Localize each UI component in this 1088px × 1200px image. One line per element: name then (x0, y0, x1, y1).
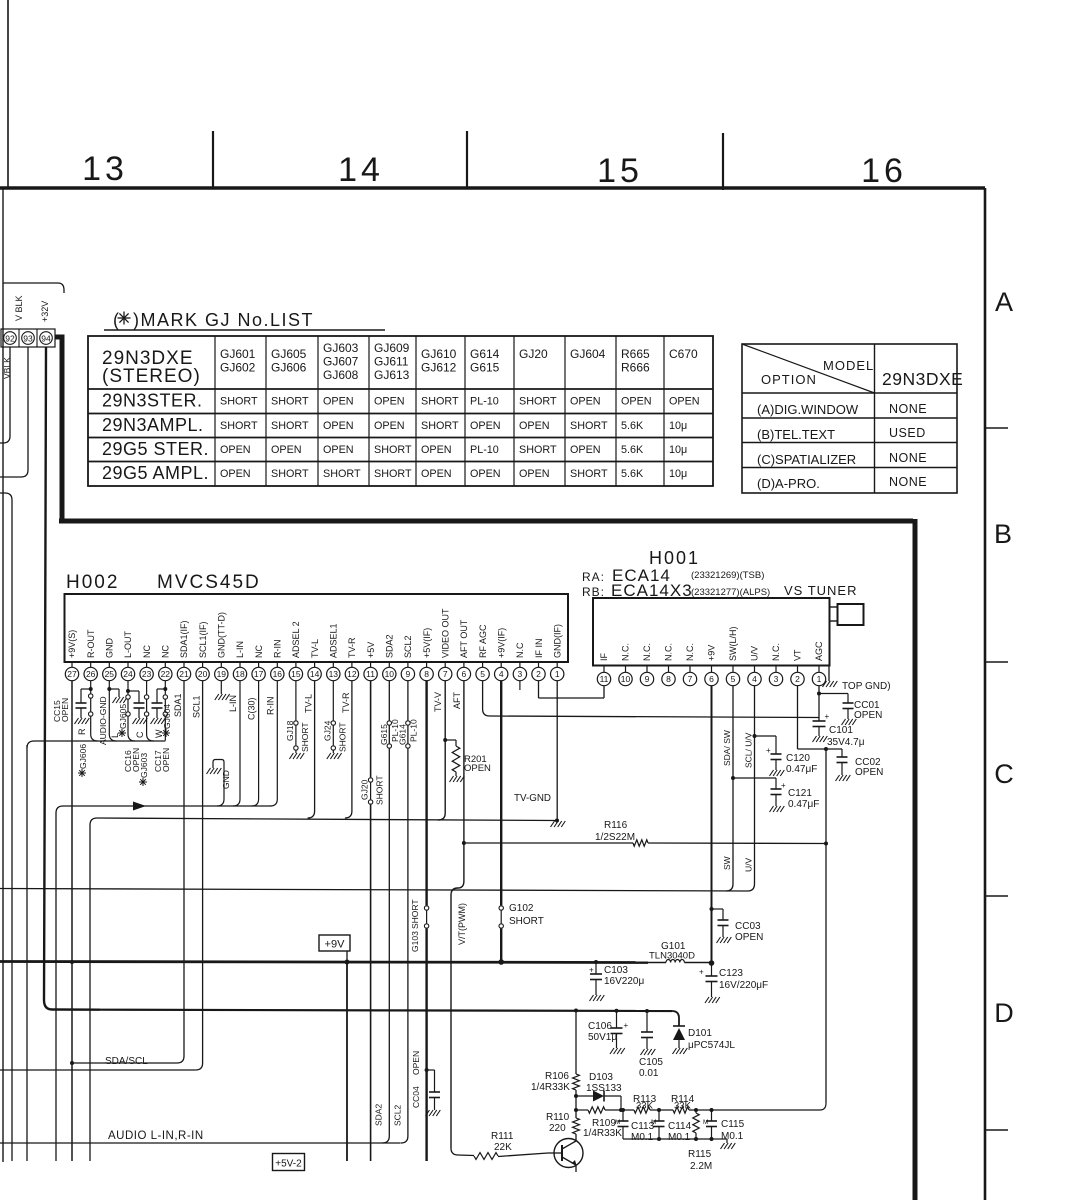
wire pin11 +5V with jumper GJ20 (368, 681, 372, 1161)
svg-text:R: R (77, 728, 87, 735)
labels R109 1/4R33K (583, 1118, 622, 1139)
svg-text:D101: D101 (688, 1028, 712, 1039)
labels G615 PL-10 (379, 719, 400, 745)
tuner connector stub (830, 604, 864, 625)
svg-text:N.C.: N.C. (685, 643, 695, 661)
capacitor C120 (755, 736, 785, 776)
svg-text:OPEN: OPEN (374, 396, 405, 408)
svg-text:R115: R115 (688, 1149, 712, 1160)
SDA/SCL lines (0, 1063, 196, 1070)
table title (*)MARK GJ No.LIST (104, 310, 385, 330)
wire tuner AGC pin1 + C101 (817, 686, 821, 721)
svg-text:220: 220 (549, 1123, 566, 1134)
svg-text:SHORT: SHORT (374, 468, 412, 480)
GND bracket near pin19 (207, 760, 225, 807)
svg-text:GJ24: GJ24 (322, 720, 332, 741)
wire from pin 93 down, curves left (0, 347, 28, 477)
svg-text:PL-10: PL-10 (470, 444, 499, 456)
svg-text:AUDIO L-IN,R-IN: AUDIO L-IN,R-IN (108, 1130, 204, 1142)
wire entering from left, curves down (x11 rail) (0, 493, 12, 1161)
svg-text:OPEN: OPEN (735, 932, 763, 943)
labels SDA/SW SCL/UV (722, 730, 754, 768)
svg-text:OPEN: OPEN (323, 444, 354, 456)
capacitor CC16 on pin24 (126, 689, 147, 724)
svg-text:M: M (615, 1119, 620, 1126)
wire pin6 AFT with jog to V/T(PWM) (451, 681, 466, 1148)
svg-text:NC: NC (161, 645, 171, 658)
svg-text:R111: R111 (491, 1131, 514, 1142)
svg-text:M: M (651, 1119, 656, 1126)
labels CC16 OPEN *GJ603 (123, 748, 149, 786)
label SDA1 (173, 693, 183, 717)
svg-text:29G5 STER.: 29G5 STER. (102, 439, 209, 459)
svg-text:C123: C123 (719, 968, 743, 979)
svg-text:IF: IF (599, 652, 609, 661)
capacitor C106 (610, 1011, 629, 1054)
capacitor CC01 OPEN (819, 694, 856, 726)
diode D103 1SS133 (576, 1091, 623, 1113)
svg-text:H001: H001 (649, 548, 700, 568)
labels C121 0.47uF (788, 788, 819, 810)
svg-text:1/4R33K: 1/4R33K (531, 1082, 570, 1093)
labels G102 SHORT (509, 903, 544, 927)
svg-text:15: 15 (291, 669, 301, 679)
svg-text:C115: C115 (721, 1119, 745, 1130)
svg-text:R-IN: R-IN (273, 640, 283, 659)
VT divider line with R109 R113 R114 (576, 1103, 826, 1113)
capacitor C113 (615, 1108, 629, 1139)
capacitor C103 electrolytic (589, 960, 604, 1001)
svg-text:16: 16 (861, 152, 907, 190)
svg-text:OPEN: OPEN (519, 420, 550, 432)
svg-text:GJ605: GJ605 (118, 704, 128, 729)
svg-text:GJ606: GJ606 (271, 361, 307, 375)
wire tuner SW pin5 down (726, 686, 733, 891)
jumper GJ604 on pin 22 (163, 681, 167, 741)
svg-text:TOP GND): TOP GND) (842, 681, 891, 692)
svg-text:17: 17 (254, 669, 264, 679)
jumper GJ605 on pin 24 (126, 681, 135, 741)
svg-text:N.C.: N.C. (642, 643, 652, 661)
resistor R115 (693, 1110, 699, 1139)
svg-text:C670: C670 (669, 347, 698, 361)
wire x27 lower rail from audio bus corner (26, 745, 28, 1161)
capacitor C105 (641, 1011, 656, 1055)
wire pin17 to gnd bus (252, 681, 259, 806)
svg-text:μPC574JL: μPC574JL (688, 1040, 735, 1051)
labels R114 33K (671, 1094, 695, 1112)
svg-text:V BLK: V BLK (14, 295, 24, 321)
capacitor C121 (731, 776, 786, 812)
svg-text:MVCS45D: MVCS45D (157, 572, 261, 593)
svg-text:AGC: AGC (814, 641, 824, 661)
wire pin9 SCL2 with jumper G614 PL-10 (401, 681, 410, 1143)
labels R201 OPEN (464, 754, 491, 774)
svg-text:21: 21 (179, 669, 189, 679)
label TV-GND (514, 793, 551, 804)
+5V-2 boxed label (273, 1154, 305, 1171)
svg-text:AFT: AFT (452, 691, 462, 709)
svg-text:5: 5 (731, 674, 736, 684)
svg-text:+9V(S): +9V(S) (67, 630, 77, 658)
label TV-R on pin12 wire (341, 692, 351, 713)
svg-text:GJ606: GJ606 (78, 744, 88, 769)
svg-text:RB:: RB: (582, 585, 605, 599)
svg-text:GJ608: GJ608 (323, 368, 359, 382)
svg-text:G614: G614 (470, 347, 500, 361)
svg-text:0.47μF: 0.47μF (788, 799, 819, 810)
capacitor C115 (703, 1110, 717, 1139)
svg-text:M0.1: M0.1 (721, 1131, 744, 1142)
svg-text:50V1μ: 50V1μ (588, 1032, 617, 1043)
svg-text:29N3AMPL.: 29N3AMPL. (102, 415, 204, 435)
svg-text:N.C.: N.C. (771, 643, 781, 661)
svg-text:SW(L/H): SW(L/H) (728, 627, 738, 662)
H002 pin circles 27..1 (65, 662, 564, 681)
wire pin7 TV-V (438, 681, 447, 820)
svg-text:OPEN: OPEN (464, 763, 491, 774)
svg-text:SCL2: SCL2 (403, 635, 413, 658)
wire pin18 to gnd bus (233, 681, 240, 806)
IC H002 MVCS45D block (65, 572, 569, 662)
labels SW UV lower (722, 856, 754, 872)
svg-text:94: 94 (41, 333, 51, 343)
svg-text:GJ604: GJ604 (570, 347, 606, 361)
svg-text:33K: 33K (674, 1101, 692, 1112)
svg-text:+: + (766, 746, 771, 755)
svg-text:OPEN: OPEN (421, 444, 452, 456)
pin3 NC stub (519, 681, 521, 690)
pin19 ground stub (215, 681, 230, 700)
svg-text:GJ601: GJ601 (220, 347, 256, 361)
svg-text:3: 3 (518, 669, 523, 679)
svg-text:N.C: N.C (515, 642, 525, 658)
svg-text:20: 20 (198, 669, 208, 679)
svg-text:NC: NC (254, 645, 264, 658)
svg-text:TV-L: TV-L (310, 639, 320, 658)
labels R111 22K (491, 1131, 514, 1153)
+9V rail thick (0, 962, 648, 963)
svg-text:+5V-2: +5V-2 (275, 1159, 302, 1170)
labels C103 16V220u (604, 965, 644, 987)
svg-text:C(30): C(30) (247, 697, 257, 720)
svg-text:TV-GND: TV-GND (514, 793, 551, 804)
svg-text:SHORT: SHORT (323, 468, 361, 480)
svg-text:OPEN: OPEN (519, 468, 550, 480)
resistor R111 22K (451, 1148, 548, 1159)
svg-text:10: 10 (385, 669, 395, 679)
svg-text:OPEN: OPEN (323, 420, 354, 432)
svg-text:VIDEO OUT: VIDEO OUT (440, 608, 450, 658)
label SDA/SCL (105, 1056, 148, 1067)
svg-text:SHORT: SHORT (337, 722, 347, 752)
connector pins 92 93 94 (1, 329, 55, 347)
svg-text:OPEN: OPEN (470, 468, 501, 480)
svg-text:29G5 AMPL.: 29G5 AMPL. (102, 463, 209, 483)
labels GJ20 SHORT (360, 775, 385, 805)
svg-text:)MARK GJ No.LIST: )MARK GJ No.LIST (133, 310, 314, 330)
wire tuner +9V pin6 down (709, 686, 715, 966)
svg-text:OPEN: OPEN (854, 710, 882, 721)
svg-text:C121: C121 (788, 788, 812, 799)
svg-text:U/V: U/V (744, 858, 754, 873)
svg-text:26: 26 (86, 669, 96, 679)
svg-text:1/2S22M: 1/2S22M (595, 832, 635, 843)
svg-text:SHORT: SHORT (220, 396, 258, 408)
svg-text:SHORT: SHORT (220, 420, 258, 432)
labels C123 16V/220uF (719, 968, 768, 991)
svg-text:USED: USED (889, 426, 926, 440)
svg-text:MODEL: MODEL (823, 358, 874, 373)
labels R106 1/4R33K (531, 1071, 570, 1093)
svg-text:GJ603: GJ603 (139, 753, 149, 778)
svg-text:L-OUT: L-OUT (123, 630, 133, 658)
svg-text:GJ607: GJ607 (323, 355, 359, 369)
svg-text:SHORT: SHORT (570, 468, 608, 480)
svg-text:1: 1 (555, 669, 560, 679)
svg-text:OPEN: OPEN (323, 396, 354, 408)
svg-text:5.6K: 5.6K (621, 444, 644, 456)
svg-text:29N3STER.: 29N3STER. (102, 391, 203, 411)
svg-text:R110: R110 (546, 1112, 570, 1123)
wire from pin 92 down, curves left (0, 347, 10, 443)
svg-text:SDA1(IF): SDA1(IF) (179, 620, 189, 658)
audio bus wire (27, 741, 165, 748)
svg-text:PL-10: PL-10 (408, 719, 418, 742)
labels C101 35V4.7u (827, 725, 865, 748)
svg-text:SCL2: SCL2 (393, 1104, 403, 1126)
wire pin16 to gnd bus (270, 681, 277, 806)
IC H001 tuner block (582, 548, 858, 666)
wire SCL1 pin20 (196, 681, 203, 1070)
svg-text:G615: G615 (379, 724, 389, 745)
svg-text:AFT OUT: AFT OUT (459, 619, 469, 658)
svg-text:SDA2: SDA2 (385, 634, 395, 658)
svg-text:TLN3040D: TLN3040D (649, 951, 695, 962)
svg-text:GJ611: GJ611 (374, 355, 409, 369)
svg-text:SHORT: SHORT (421, 396, 459, 408)
label AUDIO L-IN,R-IN (108, 1130, 204, 1142)
svg-text:+9V: +9V (325, 939, 346, 951)
svg-text:SCL1(IF): SCL1(IF) (198, 621, 208, 658)
svg-text:(A)DIG.WINDOW: (A)DIG.WINDOW (757, 402, 859, 417)
svg-text:11: 11 (366, 669, 375, 679)
grid column number 13 (82, 150, 128, 188)
svg-text:L: L (110, 733, 120, 738)
svg-text:TV-V: TV-V (433, 692, 443, 712)
svg-text:92: 92 (5, 333, 15, 343)
svg-text:11: 11 (600, 674, 609, 684)
GJ jumper option table (88, 336, 713, 486)
svg-text:24: 24 (123, 669, 133, 679)
svg-text:NC: NC (142, 645, 152, 658)
svg-text:GND: GND (221, 770, 231, 789)
labels R113 33K (633, 1094, 657, 1112)
svg-text:+: + (699, 968, 704, 977)
labels C115 M0.1 (721, 1119, 745, 1142)
svg-text:GJ612: GJ612 (421, 361, 457, 375)
svg-text:SHORT: SHORT (300, 722, 310, 752)
svg-text:GND(IF): GND(IF) (552, 624, 562, 658)
svg-text:D103: D103 (589, 1072, 613, 1083)
svg-text:SHORT: SHORT (570, 420, 608, 432)
svg-text:L-IN: L-IN (235, 641, 245, 658)
svg-text:ECA14X3: ECA14X3 (611, 581, 693, 600)
svg-text:GJ20: GJ20 (360, 779, 370, 800)
svg-text:(STEREO): (STEREO) (102, 366, 201, 387)
svg-text:SCL1: SCL1 (192, 695, 202, 718)
svg-text:OPEN: OPEN (220, 444, 251, 456)
svg-text:G102: G102 (509, 903, 534, 914)
grid row letter D (994, 998, 1014, 1028)
svg-text:(23321277)(ALPS): (23321277)(ALPS) (691, 587, 770, 598)
svg-text:RA:: RA: (582, 570, 605, 584)
tuner TOP GND stub and label (823, 666, 891, 693)
svg-text:(: ( (113, 310, 119, 330)
svg-text:5.6K: 5.6K (621, 468, 644, 480)
svg-text:23: 23 (142, 669, 152, 679)
wire tuner U/V pin4 down (748, 686, 757, 891)
svg-text:GJ603: GJ603 (323, 341, 359, 355)
svg-text:GJ20: GJ20 (519, 347, 548, 361)
resistor R110 (573, 1110, 580, 1141)
labels CC02 OPEN (855, 757, 883, 778)
svg-text:G614: G614 (397, 724, 407, 745)
label TV-L on pin14 wire (304, 694, 314, 713)
diode D101 varicap (672, 1011, 687, 1054)
svg-text:OPEN: OPEN (161, 748, 171, 772)
svg-text:C114: C114 (668, 1121, 692, 1132)
svg-text:C103: C103 (604, 965, 628, 976)
svg-text:SDA2: SDA2 (374, 1104, 384, 1126)
svg-text:A: A (995, 287, 1013, 317)
svg-text:NONE: NONE (889, 451, 927, 465)
svg-text:G615: G615 (470, 361, 500, 375)
svg-text:OPEN: OPEN (570, 444, 601, 456)
capacitor CC17 on pin22 (151, 687, 168, 724)
svg-text:6: 6 (709, 674, 714, 684)
svg-text:R666: R666 (621, 361, 650, 375)
svg-text:+: + (624, 1021, 629, 1030)
svg-text:12: 12 (347, 669, 357, 679)
svg-text:7: 7 (443, 669, 448, 679)
svg-text:OPEN: OPEN (570, 396, 601, 408)
svg-text:13: 13 (82, 150, 128, 188)
svg-text:TV-R: TV-R (347, 637, 357, 658)
heavy schematic border (55, 337, 915, 1200)
audio in line (0, 1142, 401, 1144)
svg-text:33K: 33K (636, 1101, 654, 1112)
labels R115 2.2M (688, 1149, 712, 1172)
svg-text:(23321269)(TSB): (23321269)(TSB) (691, 570, 764, 581)
grid row letter B (994, 519, 1012, 549)
svg-text:8: 8 (666, 674, 671, 684)
grid column number 15 (597, 152, 643, 190)
svg-text:NONE: NONE (889, 402, 927, 416)
svg-text:22K: 22K (494, 1142, 512, 1153)
wire pin1 GND(IF) to tv-gnd (556, 681, 558, 821)
wire pin10 SDA2 with jumper G615 PL-10 (382, 681, 391, 1143)
svg-text:U/V: U/V (750, 646, 760, 661)
capacitor C101 electrolytic (813, 712, 830, 742)
wire SDA1 pin21 (177, 681, 184, 1063)
svg-text:R-IN: R-IN (265, 697, 275, 716)
svg-text:7: 7 (688, 674, 693, 684)
svg-text:16V/220μF: 16V/220μF (719, 980, 768, 991)
svg-text:0.47μF: 0.47μF (786, 764, 817, 775)
label AFT (452, 691, 462, 709)
svg-text:SDA/ SW: SDA/ SW (722, 730, 732, 766)
svg-text:35V4.7μ: 35V4.7μ (827, 737, 865, 748)
svg-text:SHORT: SHORT (375, 775, 385, 805)
svg-text:OPEN: OPEN (621, 396, 652, 408)
labels C113 M0.1 (631, 1121, 655, 1143)
svg-text:OPEN: OPEN (421, 468, 452, 480)
svg-text:13: 13 (329, 669, 339, 679)
svg-text:N.C.: N.C. (664, 643, 674, 661)
transistor Q101 (548, 1139, 583, 1173)
svg-text:10μ: 10μ (669, 420, 687, 432)
svg-text:SDA1: SDA1 (173, 693, 183, 717)
capacitor C123 electrolytic (699, 963, 720, 1003)
labels GJ24 SHORT (322, 720, 347, 752)
svg-text:6: 6 (462, 669, 467, 679)
+32V wire from pin 94 down to corner (44, 347, 100, 1010)
resistor R106 (573, 1011, 580, 1113)
labels D103 1SS133 (586, 1072, 622, 1094)
svg-text:SCL/ U/V: SCL/ U/V (744, 732, 754, 768)
svg-text:R-OUT: R-OUT (86, 629, 96, 658)
svg-text:9: 9 (645, 674, 650, 684)
resistor R201 OPEN (445, 740, 464, 782)
top border with grid ticks (0, 131, 985, 190)
svg-text:25: 25 (105, 669, 115, 679)
svg-text:16: 16 (273, 669, 283, 679)
labels GJ18 SHORT (285, 720, 310, 752)
svg-text:5.6K: 5.6K (621, 420, 644, 432)
svg-text:8: 8 (424, 669, 429, 679)
capacitor C114 (651, 1110, 665, 1139)
svg-text:10μ: 10μ (669, 468, 687, 480)
label V/T(PWM) (457, 903, 467, 945)
wire pin2 IF IN to tuner IF (539, 681, 605, 698)
svg-text:2: 2 (795, 674, 800, 684)
labels SDA2 SCL2 (rotated) (374, 1104, 403, 1126)
svg-text:GJ18: GJ18 (285, 720, 295, 741)
capacitor CC15 on pin26 (75, 687, 93, 724)
svg-text:M0.1: M0.1 (668, 1132, 691, 1143)
svg-text:OPEN: OPEN (220, 468, 251, 480)
svg-text:GJ613: GJ613 (374, 368, 410, 382)
jumper on pin 23 (144, 681, 153, 741)
svg-text:VS TUNER: VS TUNER (784, 583, 858, 598)
svg-text:1/4R33K: 1/4R33K (583, 1128, 622, 1139)
svg-text:19: 19 (217, 669, 227, 679)
capacitor CC02 OPEN (836, 749, 851, 781)
svg-text:SHORT: SHORT (271, 468, 309, 480)
svg-text:3: 3 (774, 674, 779, 684)
svg-text:GJ609: GJ609 (374, 341, 410, 355)
inductor G101 TLN3040D (648, 941, 712, 963)
svg-text:14: 14 (338, 151, 384, 189)
svg-text:0.01: 0.01 (639, 1068, 659, 1079)
grid column number 16 (861, 152, 907, 190)
svg-text:TV-R: TV-R (341, 692, 351, 713)
svg-text:M0.1: M0.1 (631, 1132, 654, 1143)
labels D101 uPC574JL (688, 1028, 735, 1051)
labels G103 SHORT (410, 899, 420, 952)
label L-IN on pin18 wire (228, 695, 238, 712)
